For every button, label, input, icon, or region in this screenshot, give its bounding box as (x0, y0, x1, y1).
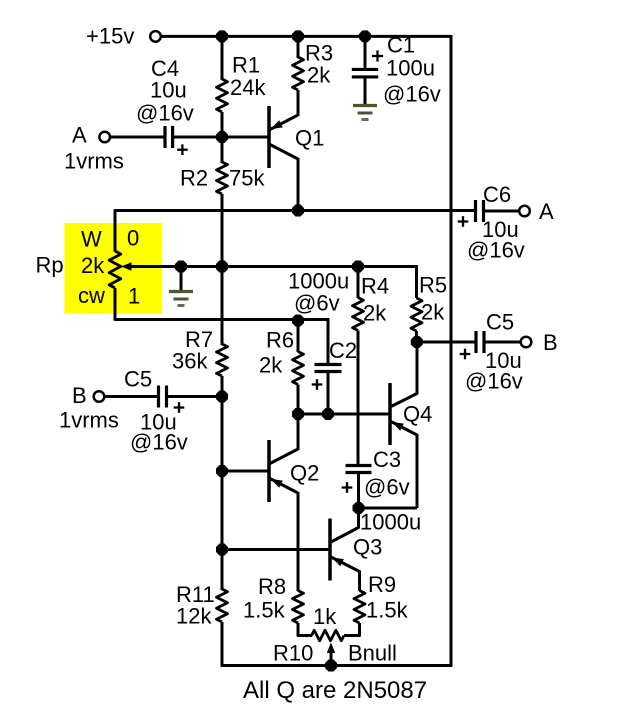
plus sign C4 polarity (177, 149, 188, 151)
svg-text:1000u: 1000u (360, 510, 421, 535)
svg-text:R6: R6 (266, 328, 294, 353)
node R3 top junction (292, 30, 304, 42)
resistor R7 (217, 344, 228, 376)
capacitor C2 (315, 363, 342, 366)
svg-text:Q4: Q4 (403, 402, 432, 427)
node Q3 base junction (216, 543, 228, 555)
node Bnull junction on bottom rail (325, 659, 337, 671)
wire rail x222 top segment (221, 35, 224, 80)
wire A output rail (115, 209, 474, 212)
svg-text:W: W (81, 227, 102, 252)
wire rail x222 R11-bottom (221, 622, 224, 667)
wire R6 top lead (297, 320, 300, 352)
wire Q3 collector up (357, 508, 360, 529)
transistor Q2 collector diagonal (269, 449, 298, 464)
transistor Q1 emitter diagonal (269, 115, 298, 130)
resistor R5 (411, 298, 422, 331)
wire C2 bottom lead (327, 373, 330, 415)
svg-text:100u: 100u (386, 56, 435, 81)
svg-text:C5: C5 (124, 367, 152, 392)
wire Q3 base wire (222, 548, 330, 551)
wire Bnull wiper stem (330, 648, 333, 666)
svg-text:Q2: Q2 (290, 461, 319, 486)
potentiometer Rp body (109, 251, 121, 288)
wire R5 top lead (415, 265, 418, 298)
svg-text:10u: 10u (150, 78, 187, 103)
node C2 bottom junction (322, 408, 334, 420)
node C3 bottom junction (352, 502, 364, 514)
capacitor C1 (352, 68, 378, 71)
resistor R8 (293, 591, 304, 624)
plus sign C5 output polarity (460, 353, 471, 355)
highlight box for potentiometer Rp (65, 223, 163, 314)
ground near potentiometer (169, 290, 193, 293)
terminal B output (521, 337, 532, 348)
wire bottom rail (222, 664, 452, 667)
svg-text:1.5k: 1.5k (243, 598, 286, 623)
wire R9 bottom corner (344, 623, 360, 636)
svg-text:R4: R4 (361, 274, 389, 299)
wire Q2 emitter down to R8 (297, 492, 300, 591)
node Q1 collector junction (292, 204, 304, 216)
resistor R2 (217, 162, 228, 194)
node C1 top junction (359, 30, 371, 42)
wire C6 to terminal (485, 210, 520, 213)
svg-text:C2: C2 (329, 338, 357, 363)
wire C1 ground lead (364, 78, 367, 105)
resistor R3 (293, 57, 304, 90)
resistor R1 (217, 79, 228, 112)
svg-text:1vrms: 1vrms (64, 149, 124, 174)
node R1 top junction (216, 30, 228, 42)
wire C2 top lead (327, 318, 330, 364)
wire Q1 collector down (297, 158, 300, 211)
node wiper rail junction x222 (216, 260, 228, 272)
potentiometer Rp wiper arrow (121, 262, 132, 270)
plus sign C3 polarity (342, 486, 353, 488)
svg-text:R2: R2 (180, 166, 208, 191)
wire Q3 emitter down to R9 (358, 571, 361, 592)
wire Q4 emitter to C3 node (359, 507, 418, 510)
resistor R4 (353, 298, 364, 331)
wire +15v right rail (450, 35, 453, 667)
svg-text:1vrms: 1vrms (59, 408, 119, 433)
transistor Q1 base bar (267, 106, 271, 168)
wire pot bottom to C2 (115, 318, 328, 321)
wire A input to C4 (110, 136, 164, 139)
svg-text:@16v: @16v (467, 238, 525, 263)
svg-text:+15v: +15v (86, 24, 134, 49)
wire Q2 collector up (297, 414, 300, 450)
svg-text:2k: 2k (259, 353, 283, 378)
svg-text:R8: R8 (258, 574, 286, 599)
resistor R6 (293, 352, 304, 385)
wire R4 top lead (357, 266, 360, 298)
wire C4 to Q1 base (174, 136, 269, 139)
wire +15v top rail (161, 35, 451, 38)
wire C1 top lead (364, 36, 367, 69)
ground under C1 (353, 104, 377, 107)
wire Q1 emitter to R3 (297, 90, 300, 116)
transistor Q1 emitter arrow (271, 120, 283, 129)
svg-text:C1: C1 (387, 33, 415, 58)
wire R8 bottom corner (298, 623, 312, 636)
wire B output (417, 341, 475, 344)
terminal A input (99, 132, 110, 143)
svg-text:36k: 36k (172, 349, 208, 374)
wire ground stub (180, 267, 183, 292)
wire R3 top lead (297, 36, 300, 58)
svg-text:@16v: @16v (465, 369, 523, 394)
wire rail x222 R1-R2 (221, 112, 224, 163)
svg-text:2k: 2k (363, 301, 387, 326)
svg-text:Q1: Q1 (295, 126, 324, 151)
wire C5 to rail x222 (168, 395, 222, 398)
svg-text:1.5k: 1.5k (366, 598, 409, 623)
wire R4 to C3 (357, 331, 360, 467)
svg-text:2k: 2k (307, 63, 331, 88)
svg-text:75k: 75k (229, 166, 265, 191)
transistor Q3 emitter arrow (332, 557, 344, 566)
node R5 bottom junction (411, 336, 423, 348)
wire R5 bottom lead (415, 331, 418, 342)
wire wiper rail (131, 265, 417, 268)
transistor Q1 collector diagonal (269, 144, 298, 159)
capacitor C5 output (474, 331, 477, 353)
svg-text:Bnull: Bnull (348, 641, 397, 666)
wire rail x222 R7-R11 (221, 376, 224, 590)
transistor Q4 emitter diagonal (390, 421, 417, 435)
svg-text:C6: C6 (483, 182, 511, 207)
plus sign C6 polarity (458, 220, 469, 222)
svg-text:@16v: @16v (383, 82, 441, 107)
transistor Q4 base bar (388, 383, 392, 445)
resistor R11 (217, 589, 228, 622)
svg-text:cw: cw (78, 283, 105, 308)
capacitor C3 (346, 464, 372, 467)
node wiper rail x222 (216, 260, 228, 272)
plus sign C1 polarity (372, 55, 383, 57)
wire C3 bottom lead (357, 473, 360, 509)
terminal B input (94, 391, 105, 402)
plus sign C5 input polarity (174, 406, 185, 408)
svg-text:@6v: @6v (364, 475, 410, 500)
svg-text:Q3: Q3 (353, 535, 382, 560)
svg-text:2k: 2k (81, 253, 105, 278)
svg-text:A: A (72, 123, 87, 148)
wire base Q4 rail (298, 413, 390, 416)
svg-text:C5: C5 (486, 310, 514, 335)
wire C5 to terminal B (486, 341, 521, 344)
svg-text:R10: R10 (273, 641, 313, 666)
node Q2 base junction (216, 465, 228, 477)
transistor Q2 emitter diagonal (269, 478, 298, 493)
node R6 bottom junction (292, 408, 304, 420)
transistor Q2 emitter arrow (271, 479, 283, 488)
node base Q1 junction (216, 131, 228, 143)
wire Q2 base wire (222, 470, 269, 473)
wire pot top lead (114, 209, 117, 251)
svg-text:@16v: @16v (136, 101, 194, 126)
node ground tap junction (175, 260, 187, 272)
wire pot bottom lead (114, 288, 117, 321)
wire R6 bottom lead (297, 385, 300, 415)
resistor R9 (354, 591, 365, 624)
svg-text:B: B (543, 330, 558, 355)
transistor Q4 emitter arrow (392, 422, 404, 431)
capacitor C5 input (157, 386, 160, 408)
svg-text:2k: 2k (421, 300, 445, 325)
terminal A output (519, 206, 530, 217)
svg-text:R1: R1 (232, 53, 260, 78)
svg-text:R5: R5 (419, 273, 447, 298)
transistor Q3 emitter diagonal (330, 557, 360, 572)
transistor Q4 collector diagonal (390, 394, 417, 408)
svg-text:C3: C3 (373, 447, 401, 472)
node R6 top junction (292, 314, 304, 326)
wire B input to C5 (104, 395, 157, 398)
resistor R10 (312, 630, 345, 640)
svg-text:@6v: @6v (294, 291, 340, 316)
potentiometer R10 wiper arrow Bnull (327, 643, 335, 654)
svg-text:1: 1 (128, 284, 140, 309)
+15v terminal (150, 31, 161, 42)
node R4 top junction (352, 260, 364, 272)
svg-text:R9: R9 (368, 572, 396, 597)
capacitor C4 (163, 126, 166, 148)
svg-text:Rp: Rp (36, 253, 64, 278)
svg-text:@16v: @16v (130, 430, 188, 455)
capacitor C6 (474, 200, 477, 222)
svg-text:0: 0 (127, 226, 139, 251)
svg-text:A: A (539, 199, 554, 224)
node B input junction (216, 390, 228, 402)
svg-text:24k: 24k (230, 75, 266, 100)
transistor Q3 collector diagonal (330, 528, 359, 543)
svg-text:All Q are 2N5087: All Q are 2N5087 (243, 677, 427, 704)
wire Q4 emitter down (416, 434, 419, 508)
svg-text:B: B (72, 383, 87, 408)
svg-text:12k: 12k (176, 604, 212, 629)
plus sign C2 polarity (312, 383, 323, 385)
transistor Q3 base bar (328, 519, 332, 581)
transistor Q2 base bar (267, 440, 271, 502)
wire rail x222 R2-R7 (221, 194, 224, 345)
svg-text:1k: 1k (313, 604, 337, 629)
wire Q4 collector up (416, 342, 419, 395)
